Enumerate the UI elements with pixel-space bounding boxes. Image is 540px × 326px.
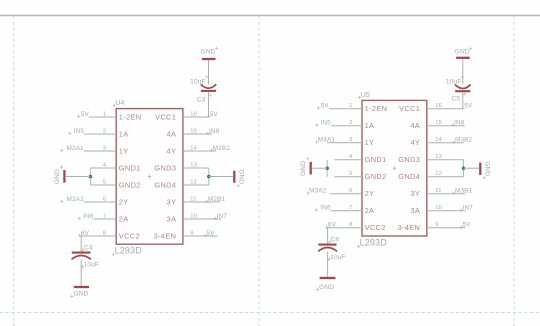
capacitor C5 10uF (polarized): [455, 85, 471, 89]
wire C6 to bottom GND of U5: [327, 252, 329, 277]
svg-text:14: 14: [435, 137, 442, 143]
wire to U5 pin 16: [427, 108, 463, 110]
svg-text:2: 2: [349, 120, 352, 126]
frame dashed vertical middle: [258, 16, 260, 326]
svg-text:2A: 2A: [365, 206, 375, 215]
wire to U5 pin 5: [334, 176, 362, 178]
svg-text:5: 5: [103, 179, 106, 185]
svg-text:10: 10: [435, 205, 442, 211]
wire to U4 pin 5: [90, 184, 116, 186]
svg-text:VCC2: VCC2: [365, 223, 386, 232]
svg-text:GND2: GND2: [119, 180, 141, 189]
wire to U4 pin 9: [183, 235, 218, 237]
svg-text:4Y: 4Y: [167, 146, 177, 155]
svg-text:U4: U4: [115, 100, 124, 107]
wire to U5 pin 6: [330, 193, 362, 195]
svg-text:GND2: GND2: [365, 172, 387, 181]
frame dashed horizontal bottom: [0, 312, 540, 314]
svg-text:5: 5: [349, 171, 352, 177]
svg-text:10: 10: [190, 213, 197, 219]
svg-text:GND1: GND1: [365, 155, 387, 164]
wire to U4 pin 6: [84, 201, 116, 203]
svg-text:IN7: IN7: [217, 213, 228, 220]
svg-text:U5: U5: [361, 92, 370, 99]
wire GND to capacitor C3: [208, 60, 210, 84]
ground symbol right of U4: [233, 171, 235, 183]
svg-text:IN7: IN7: [463, 205, 474, 212]
wire junction to right GND of U4: [209, 176, 233, 178]
ground symbol below C4: [74, 286, 89, 288]
svg-text:1: 1: [349, 103, 352, 109]
svg-text:5V: 5V: [207, 230, 216, 237]
svg-text:16: 16: [190, 111, 197, 117]
svg-text:13: 13: [190, 162, 197, 168]
svg-text:11: 11: [435, 188, 441, 194]
wire to U5 pin 4: [334, 159, 362, 161]
svg-text:GND: GND: [54, 169, 61, 184]
svg-text:5V: 5V: [463, 222, 472, 229]
svg-text:IN6: IN6: [83, 213, 94, 220]
wire GND to capacitor C5: [462, 59, 464, 84]
svg-text:2Y: 2Y: [365, 189, 375, 198]
svg-text:M2A2: M2A2: [67, 196, 85, 203]
svg-text:M3B1: M3B1: [455, 188, 473, 195]
svg-text:VCC1: VCC1: [399, 104, 420, 113]
svg-text:15: 15: [435, 120, 442, 126]
svg-text:6: 6: [349, 188, 352, 194]
frame dashed vertical left: [13, 16, 15, 326]
svg-text:IN5: IN5: [74, 128, 85, 135]
svg-text:1A: 1A: [119, 129, 129, 138]
wire to U4 pin 10: [183, 218, 221, 220]
svg-text:C5: C5: [452, 96, 461, 103]
svg-text:9: 9: [190, 230, 193, 236]
frame solid top line: [0, 15, 540, 17]
svg-text:5V: 5V: [210, 111, 219, 118]
svg-text:IN8: IN8: [454, 120, 465, 127]
svg-text:GND1: GND1: [119, 163, 141, 172]
svg-text:1Y: 1Y: [119, 146, 129, 155]
wire to U5 pin 7: [331, 210, 362, 212]
IC U4 origin cross: [148, 175, 152, 179]
svg-text:4A: 4A: [167, 129, 177, 138]
wire C5 to U5 pin 16: [462, 92, 464, 109]
svg-text:GND: GND: [73, 291, 88, 298]
svg-text:VCC1: VCC1: [155, 112, 176, 121]
svg-text:C6: C6: [331, 237, 340, 244]
wire C3 to U4 pin 16: [208, 92, 210, 117]
svg-text:M2B2: M2B2: [213, 145, 231, 152]
svg-text:1-2EN: 1-2EN: [365, 104, 388, 113]
svg-text:9: 9: [435, 222, 438, 228]
wire to U4 pin 13: [183, 167, 209, 169]
svg-text:3A: 3A: [167, 214, 177, 223]
wire to U4 pin 11: [183, 201, 220, 203]
svg-text:10uF: 10uF: [446, 79, 462, 86]
svg-text:IN6: IN6: [320, 205, 331, 212]
wire U5 pin 8 down to capacitor C6: [327, 228, 329, 244]
svg-text:3Y: 3Y: [167, 197, 177, 206]
wire to U4 pin 8: [80, 235, 116, 237]
ground symbol left of U4: [63, 170, 65, 183]
svg-text:M3A2: M3A2: [309, 188, 327, 195]
svg-text:3Y: 3Y: [410, 189, 420, 198]
wire vertical joining U5 pins 4 and 5: [326, 160, 328, 177]
capacitor C4 10uF (polarized): [72, 252, 91, 254]
wire junction to right GND of U5: [464, 167, 480, 169]
wire to U4 pin 7: [94, 218, 117, 220]
op-amp-style IC body U4 (L293D): [116, 109, 183, 245]
svg-text:12: 12: [435, 171, 442, 177]
svg-text:GND: GND: [319, 284, 334, 291]
svg-text:6V: 6V: [328, 222, 337, 229]
ground symbol right of U5: [479, 163, 481, 175]
ground symbol left of U5: [310, 162, 312, 175]
svg-text:1-2EN: 1-2EN: [119, 112, 142, 121]
svg-text:4A: 4A: [410, 121, 420, 130]
svg-text:7: 7: [103, 213, 106, 219]
svg-text:4Y: 4Y: [410, 138, 420, 147]
svg-text:GND4: GND4: [154, 180, 176, 189]
wire vertical joining U5 pins 13 and 12: [463, 160, 465, 177]
wire to U5 pin 1: [329, 108, 362, 110]
node junction pins 4-5 U5: [325, 166, 329, 170]
wire to U4 pin 14: [183, 150, 216, 152]
svg-text:13: 13: [435, 154, 442, 160]
svg-text:10uF: 10uF: [84, 261, 100, 268]
svg-text:L293D: L293D: [115, 246, 143, 256]
capacitor C6 10uF (polarized): [318, 244, 336, 246]
wire vertical joining U4 pins 4 and 5: [89, 168, 91, 185]
wire to U5 pin 15: [427, 125, 465, 127]
svg-text:L293D: L293D: [360, 237, 388, 247]
svg-text:15: 15: [190, 128, 197, 134]
svg-text:C3: C3: [197, 97, 206, 104]
svg-text:IN8: IN8: [209, 128, 220, 135]
svg-text:10uF: 10uF: [330, 254, 346, 261]
svg-text:3-4EN: 3-4EN: [397, 223, 420, 232]
svg-text:1A: 1A: [365, 121, 375, 130]
svg-text:1: 1: [103, 111, 106, 117]
op-amp-style IC body U5 (L293D): [362, 100, 427, 236]
wire to U5 pin 11: [427, 193, 465, 195]
frame dashed vertical right: [513, 16, 515, 326]
svg-text:1Y: 1Y: [365, 138, 375, 147]
svg-text:GND: GND: [300, 161, 307, 176]
svg-text:2A: 2A: [119, 214, 129, 223]
svg-text:5V: 5V: [464, 103, 473, 110]
svg-text:16: 16: [435, 103, 442, 109]
node junction pins 4-5 U4: [89, 175, 93, 179]
wire to U5 pin 2: [331, 125, 362, 127]
svg-text:M2B1: M2B1: [208, 196, 226, 203]
wire to U4 pin 3: [84, 150, 116, 152]
svg-text:8: 8: [103, 230, 106, 236]
wire to U5 pin 14: [427, 142, 464, 144]
wire to U4 pin 4: [90, 167, 116, 169]
wire to U5 pin 8: [327, 227, 362, 229]
wire C4 to bottom GND of U4: [80, 260, 82, 286]
ground symbol below C6: [320, 277, 336, 279]
svg-text:C4: C4: [84, 245, 93, 252]
svg-text:GND3: GND3: [398, 155, 420, 164]
node junction pins 13-12 U5: [462, 166, 466, 170]
wire to U5 pin 12: [427, 176, 464, 178]
wire to U4 pin 12: [183, 184, 209, 186]
svg-text:GND: GND: [237, 169, 244, 184]
svg-text:IN5: IN5: [320, 120, 331, 127]
svg-text:3-4EN: 3-4EN: [154, 231, 177, 240]
svg-text:GND4: GND4: [398, 172, 420, 181]
wire to U5 pin 10: [427, 210, 466, 212]
svg-text:3A: 3A: [410, 206, 420, 215]
svg-text:3: 3: [103, 145, 106, 151]
svg-text:M3B2: M3B2: [455, 137, 473, 144]
wire to U4 pin 1: [89, 116, 116, 118]
wire junction to left GND of U4: [66, 176, 90, 178]
svg-text:5V: 5V: [321, 103, 330, 110]
IC U5 origin cross: [392, 166, 396, 170]
svg-text:14: 14: [190, 145, 197, 151]
svg-text:GND3: GND3: [154, 163, 176, 172]
svg-text:10uF: 10uF: [190, 78, 206, 85]
node junction pins 13-12 U4: [207, 175, 211, 179]
svg-text:VCC2: VCC2: [119, 231, 140, 240]
wire junction to left GND of U5: [312, 167, 327, 169]
svg-text:2: 2: [103, 128, 106, 134]
svg-text:2Y: 2Y: [119, 197, 129, 206]
svg-text:7: 7: [349, 205, 352, 211]
svg-text:5V: 5V: [81, 111, 90, 118]
capacitor C3 10uF (polarized): [201, 84, 217, 88]
svg-text:M3A1: M3A1: [318, 137, 336, 144]
svg-text:6: 6: [103, 196, 106, 202]
wire to U4 pin 16: [183, 116, 209, 118]
svg-text:GND: GND: [200, 49, 215, 56]
wire U4 pin 8 down to capacitor C4: [80, 236, 82, 252]
wire to U5 pin 13: [427, 159, 464, 161]
wire to U4 pin 2: [84, 133, 116, 135]
wire vertical joining U4 pins 13 and 12: [208, 168, 210, 185]
svg-text:3: 3: [349, 137, 352, 143]
svg-text:GND: GND: [483, 161, 490, 176]
svg-text:GND: GND: [455, 49, 470, 56]
wire to U4 pin 15: [183, 133, 212, 135]
svg-text:11: 11: [190, 196, 196, 202]
wire to U5 pin 9: [427, 227, 466, 229]
wire to U5 pin 3: [327, 142, 362, 144]
svg-text:12: 12: [190, 179, 197, 185]
svg-text:8: 8: [349, 222, 352, 228]
svg-text:M2A1: M2A1: [67, 145, 85, 152]
svg-text:6V: 6V: [81, 230, 90, 237]
